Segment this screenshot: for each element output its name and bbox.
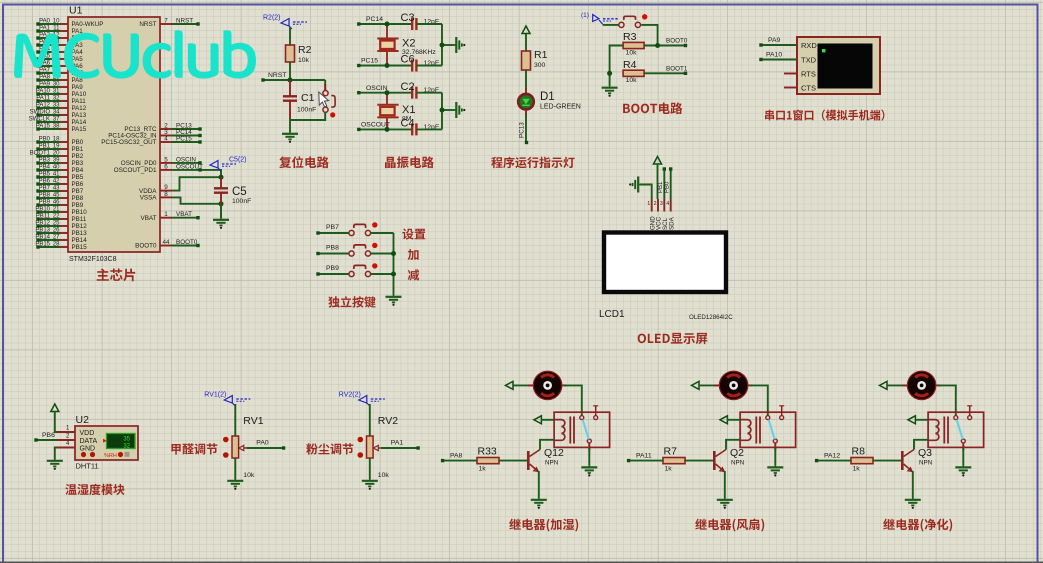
- svg-text:OSCIN_PD0: OSCIN_PD0: [121, 160, 157, 167]
- svg-text:100nF: 100nF: [297, 107, 316, 114]
- svg-text:37: 37: [53, 117, 60, 123]
- MCUclub watermark: [14, 30, 256, 78]
- relay contacts: [580, 416, 584, 420]
- wire/pin PB8 (pin 45): [60, 197, 68, 199]
- svg-text:30: 30: [53, 82, 60, 88]
- wire NRST horizontal: [263, 79, 325, 81]
- svg-text:1: 1: [647, 201, 650, 207]
- svg-text:PB1: PB1: [658, 181, 664, 193]
- resistor R8 1k: [851, 458, 873, 464]
- net flag RV2(2): [359, 396, 367, 404]
- wire wiper PA1: [381, 447, 418, 449]
- svg-text:R4: R4: [623, 59, 637, 71]
- label 主芯片: [97, 269, 136, 282]
- wire PA10: [761, 59, 797, 61]
- wire bottom to ground: [234, 458, 236, 479]
- ground DHT11: [47, 459, 63, 470]
- wire arrow-motor: [887, 384, 907, 386]
- wire/pin PA10 (pin 31): [60, 93, 68, 95]
- wire PA8: [443, 460, 477, 462]
- relay 风扇 body: [740, 412, 796, 447]
- wire/pin PB6 (pin 42): [60, 183, 68, 185]
- svg-text:OSCIN: OSCIN: [366, 85, 388, 92]
- svg-text:PA10: PA10: [72, 91, 87, 98]
- svg-text:R1: R1: [534, 49, 548, 61]
- ground under C5: [213, 218, 229, 229]
- wire common to ground: [774, 443, 776, 451]
- label 减: [408, 269, 419, 280]
- resistor R33 1k: [477, 458, 499, 464]
- relay coil: [554, 420, 565, 441]
- svg-text:11: 11: [53, 26, 60, 32]
- svg-text:VDD: VDD: [80, 430, 95, 437]
- svg-text:34: 34: [53, 110, 60, 116]
- svg-text:42: 42: [53, 179, 60, 185]
- svg-text:D1: D1: [540, 91, 555, 103]
- label BOOT电路: [623, 104, 657, 114]
- wire/pin PB9 (pin 46): [60, 204, 68, 206]
- svg-text:CTS: CTS: [801, 84, 816, 93]
- button 减: [349, 271, 354, 276]
- label 继电器 加湿: [509, 519, 549, 532]
- label 甲醛调节: [171, 443, 217, 454]
- svg-text:Q2: Q2: [730, 447, 744, 459]
- wire to common: [371, 273, 394, 275]
- resistor R3 10k: [623, 42, 644, 48]
- svg-text:PB4: PB4: [72, 167, 84, 174]
- ground BOOT: [602, 86, 618, 97]
- net flag C5(2): [210, 161, 218, 169]
- svg-text:PB12: PB12: [35, 221, 50, 227]
- relay 净化 body: [928, 412, 984, 447]
- svg-text:RTS: RTS: [801, 70, 816, 79]
- power arrow DHT11: [51, 404, 59, 412]
- LED D1 LED-GREEN: [525, 88, 527, 94]
- label 设置: [402, 229, 425, 240]
- svg-text:PA12: PA12: [36, 103, 51, 109]
- svg-text:1k: 1k: [665, 466, 673, 473]
- power arrow motor: [880, 381, 888, 389]
- wire arrow-motor: [699, 384, 719, 386]
- svg-text:PA11: PA11: [72, 98, 87, 105]
- svg-text:PC15: PC15: [176, 136, 192, 143]
- wire PA11: [629, 460, 663, 462]
- wire R1 to D1: [525, 70, 527, 90]
- svg-text:R2: R2: [298, 44, 312, 56]
- capacitor C4 12pF: [411, 123, 413, 135]
- svg-text:32.768KHz: 32.768KHz: [402, 49, 436, 56]
- svg-text:PB9: PB9: [39, 200, 51, 206]
- power arrow coil: [908, 416, 916, 424]
- wire button to BOOT0 node: [641, 25, 657, 46]
- relay contacts: [954, 416, 958, 420]
- svg-text:PA14: PA14: [72, 119, 87, 126]
- svg-text:GND: GND: [80, 446, 96, 453]
- wire/pin PA5 (pin 15): [60, 58, 68, 60]
- wire/pin PA3 (pin 13): [60, 44, 68, 46]
- svg-text:7: 7: [164, 18, 168, 25]
- wire PA12: [817, 460, 851, 462]
- wire motor to relay: [562, 384, 566, 386]
- ground OLED (rotated): [629, 177, 640, 193]
- svg-text:PA9: PA9: [72, 84, 84, 91]
- wire coil VCC: [541, 419, 554, 421]
- wire/pin PB0 (pin 18): [60, 141, 68, 143]
- svg-text:PB4: PB4: [39, 165, 51, 171]
- crystal X1 8M: [386, 93, 388, 105]
- wire/pin PA11 (pin 32): [60, 100, 68, 102]
- svg-text:PB15: PB15: [72, 244, 88, 251]
- svg-text:RV1: RV1: [243, 415, 263, 427]
- svg-text:44: 44: [162, 239, 170, 246]
- pin NRST (pin 7): [160, 23, 172, 25]
- wire/pin PB1 (pin 19): [60, 148, 68, 150]
- wire PB9: [318, 273, 349, 275]
- wire VCC: [657, 164, 659, 199]
- svg-text:BOOT1: BOOT1: [666, 65, 688, 72]
- svg-text:39: 39: [53, 158, 60, 164]
- svg-text:PA4: PA4: [72, 49, 84, 56]
- svg-text:33: 33: [53, 103, 60, 109]
- wire/pin PA7 (pin 17): [60, 72, 68, 74]
- svg-text:PB12: PB12: [72, 223, 88, 230]
- label 加: [408, 249, 419, 260]
- wire button/C1 to ground: [290, 112, 325, 120]
- svg-text:VSSA: VSSA: [140, 195, 158, 202]
- svg-text:PA11: PA11: [36, 96, 50, 102]
- wire/pin PA4 (pin 14): [60, 51, 68, 53]
- serial terminal box: [784, 73, 797, 75]
- svg-text:PB6: PB6: [42, 432, 55, 439]
- relay 加湿 body: [554, 412, 610, 447]
- svg-text:PC15-OSC32_OUT: PC15-OSC32_OUT: [101, 139, 156, 146]
- svg-text:U2: U2: [76, 414, 90, 426]
- wire OSCOUT: [359, 128, 412, 130]
- DHT11 buttons: [81, 452, 86, 457]
- svg-text:100nF: 100nF: [232, 198, 251, 205]
- resistor R7 1k: [663, 458, 685, 464]
- wire common to ground: [588, 443, 590, 451]
- svg-text:DHT11: DHT11: [76, 462, 99, 471]
- svg-text:26: 26: [53, 228, 60, 234]
- svg-text:Q12: Q12: [544, 447, 564, 459]
- svg-text:R3: R3: [623, 31, 637, 43]
- wire wiper PA0: [246, 447, 283, 449]
- svg-text:1k: 1k: [479, 466, 487, 473]
- svg-text:PA12: PA12: [72, 105, 87, 112]
- svg-text:Q3: Q3: [918, 447, 932, 459]
- svg-text:SWCLK: SWCLK: [29, 117, 50, 123]
- wire R3 right to BOOT0: [644, 45, 685, 47]
- svg-text:PB3: PB3: [72, 160, 84, 167]
- svg-text:PB5: PB5: [39, 172, 51, 178]
- svg-text:DATA: DATA: [80, 438, 98, 445]
- svg-text:21: 21: [53, 207, 60, 213]
- label 粉尘调节: [306, 443, 353, 454]
- wire/pin PA1 (pin 11): [60, 30, 68, 32]
- label OLED显示屏: [638, 334, 670, 344]
- ground relay: [581, 466, 597, 477]
- svg-text:PC15: PC15: [361, 58, 378, 65]
- wire motor to relay: [936, 384, 940, 386]
- wire OSCIN: [359, 92, 412, 94]
- power arrow coil: [720, 416, 728, 424]
- motor 净化: [907, 371, 935, 399]
- svg-text:PB7: PB7: [72, 188, 84, 195]
- svg-text:PB9: PB9: [326, 265, 339, 272]
- svg-text:19: 19: [53, 144, 60, 150]
- label 晶振电路: [385, 156, 434, 168]
- svg-text:PA8: PA8: [39, 75, 51, 81]
- svg-text:NRST: NRST: [176, 18, 193, 25]
- wire/pin SWDIO (pin 34): [60, 114, 68, 116]
- svg-text:▶: ▶: [103, 438, 107, 444]
- svg-text:PB13: PB13: [72, 230, 88, 237]
- svg-text:PB8: PB8: [39, 193, 51, 199]
- relay contacts: [766, 416, 770, 420]
- svg-text:3: 3: [660, 201, 663, 207]
- wire/pin PB7 (pin 43): [60, 190, 68, 192]
- pin VBAT (pin 1): [160, 217, 172, 219]
- svg-text:PA15: PA15: [72, 126, 87, 133]
- label 温湿度模块: [65, 484, 124, 495]
- terminal screen: [818, 44, 873, 89]
- LCD1 OLED display body: [604, 233, 726, 293]
- wire/pin SWCLK (pin 37): [60, 121, 68, 123]
- relay blade: [957, 420, 963, 440]
- label 独立按键: [328, 296, 376, 308]
- svg-text:PA11: PA11: [636, 453, 652, 460]
- svg-text:38: 38: [53, 124, 60, 130]
- relay blade: [583, 420, 589, 440]
- svg-text:PB7: PB7: [39, 186, 51, 192]
- wire PA9: [761, 44, 797, 46]
- svg-text:PA10: PA10: [766, 52, 782, 59]
- BOOT button: [603, 24, 619, 26]
- svg-text:BOOT0: BOOT0: [666, 38, 688, 45]
- wire motor to relay: [748, 384, 752, 386]
- label 继电器 风扇: [695, 519, 735, 532]
- wire/pin PB3 (pin 39): [60, 162, 68, 164]
- svg-text:PB10: PB10: [35, 207, 50, 213]
- svg-text:OLED12864I2C: OLED12864I2C: [689, 314, 733, 321]
- resistor R1 300: [522, 51, 531, 70]
- svg-text:C3: C3: [401, 12, 415, 24]
- capacitor C2 12pF: [411, 87, 413, 99]
- svg-text:VBAT: VBAT: [176, 211, 192, 218]
- svg-text:10k: 10k: [298, 57, 310, 64]
- svg-text:LED-GREEN: LED-GREEN: [540, 104, 581, 111]
- ground emitter: [905, 498, 921, 509]
- wire/pin PA0 (pin 10): [60, 23, 68, 25]
- wire/pin PB12 (pin 25): [60, 225, 68, 227]
- wire top: [369, 404, 371, 436]
- wire bottom to ground: [369, 458, 371, 479]
- label 程序运行指示灯: [491, 157, 574, 169]
- button 设置: [349, 230, 354, 235]
- svg-text:6: 6: [164, 163, 168, 170]
- svg-text:10k: 10k: [626, 77, 638, 84]
- svg-text:X1: X1: [402, 104, 415, 116]
- svg-text:PC14: PC14: [366, 16, 383, 23]
- svg-text:45: 45: [53, 193, 60, 199]
- svg-text:10k: 10k: [378, 472, 390, 479]
- wire/pin PB10 (pin 21): [60, 211, 68, 213]
- wire right vertical: [441, 24, 443, 66]
- wire base: [499, 460, 527, 462]
- wire D1 down PC13: [525, 110, 527, 117]
- ground relay: [955, 466, 971, 477]
- wire/pin BOOT1 (pin 20): [60, 155, 68, 157]
- svg-text:27: 27: [53, 235, 60, 241]
- ground: [362, 479, 378, 490]
- resistor R2 10k: [286, 45, 295, 62]
- svg-text:NPN: NPN: [919, 460, 933, 467]
- svg-text:46: 46: [53, 200, 60, 206]
- svg-text:R33: R33: [478, 446, 497, 458]
- wire/pin PA6 (pin 16): [60, 65, 68, 67]
- wire/pin PB13 (pin 26): [60, 232, 68, 234]
- net flag R2(2): [281, 19, 289, 27]
- wire PC14: [359, 23, 412, 25]
- svg-text:NPN: NPN: [545, 460, 559, 467]
- svg-text:C1: C1: [301, 92, 315, 104]
- wire base: [873, 460, 901, 462]
- svg-text:BOOT1: BOOT1: [30, 151, 51, 157]
- svg-text:RV2: RV2: [378, 415, 398, 427]
- wire right vertical: [441, 93, 443, 130]
- pin BOOT0 (pin 44): [160, 245, 172, 247]
- label 继电器 净化: [883, 519, 923, 532]
- svg-text:PA8: PA8: [450, 453, 463, 460]
- svg-text:R8: R8: [852, 446, 866, 458]
- wire PB6: [36, 439, 57, 441]
- relay coil: [740, 420, 751, 441]
- svg-text:%RH: %RH: [104, 453, 117, 459]
- pin VDDA (pin 9) wire: [160, 190, 172, 192]
- svg-text:40: 40: [53, 165, 60, 171]
- svg-text:OSCOUT_PD1: OSCOUT_PD1: [114, 167, 157, 174]
- svg-text:RV1(2): RV1(2): [204, 392, 226, 399]
- svg-text:10k: 10k: [626, 49, 638, 56]
- capacitor C6 12pF: [411, 60, 413, 72]
- DHT11 display: [107, 434, 136, 449]
- svg-text:10: 10: [53, 19, 60, 25]
- button 加: [349, 251, 354, 256]
- chip U1 STM32F103C8: [68, 17, 160, 252]
- svg-text:PB2: PB2: [72, 153, 84, 160]
- svg-text:PB0: PB0: [72, 139, 84, 146]
- svg-text:PB10: PB10: [72, 209, 88, 216]
- resistor R4 10k: [623, 70, 644, 76]
- OLED pins 1-4: [651, 199, 653, 212]
- svg-text:BOOT0: BOOT0: [135, 243, 157, 250]
- ground relay: [767, 466, 783, 477]
- svg-text:VBAT: VBAT: [141, 215, 157, 222]
- wire/pin PA9 (pin 30): [60, 86, 68, 88]
- svg-text:25: 25: [53, 221, 60, 227]
- svg-text:41: 41: [53, 172, 60, 178]
- svg-text:SWDIO: SWDIO: [30, 110, 51, 116]
- svg-text:PB11: PB11: [36, 214, 51, 220]
- wire emitter to ground: [912, 471, 914, 498]
- motor 风扇: [719, 371, 747, 399]
- transistor Q3 NPN: [901, 451, 904, 470]
- ground buttons: [386, 295, 402, 306]
- svg-text:PB8: PB8: [72, 195, 84, 202]
- svg-text:PB8: PB8: [326, 245, 339, 252]
- svg-text:BOOT0: BOOT0: [176, 239, 198, 246]
- svg-text:R7: R7: [664, 446, 678, 458]
- svg-text:PA9: PA9: [39, 82, 51, 88]
- svg-text:PB5: PB5: [72, 174, 84, 181]
- wire PB8: [318, 253, 349, 255]
- svg-text:PA8: PA8: [72, 77, 84, 84]
- wire R2 to NRST node: [289, 62, 291, 80]
- wire to common: [371, 253, 394, 255]
- svg-text:PB3: PB3: [39, 158, 51, 164]
- svg-text:32: 32: [53, 96, 60, 102]
- wire SDA PB0: [670, 169, 672, 199]
- ground (rotated): [442, 44, 455, 46]
- svg-text:28: 28: [53, 242, 60, 248]
- svg-text:PB6: PB6: [39, 179, 51, 185]
- svg-text:PA13: PA13: [72, 112, 87, 119]
- capacitor C3 12pF: [411, 18, 413, 30]
- wire to R1: [525, 34, 527, 52]
- power arrow: [522, 26, 530, 34]
- svg-text:1k: 1k: [853, 466, 861, 473]
- svg-text:8M: 8M: [402, 115, 412, 122]
- svg-text:4: 4: [164, 136, 168, 143]
- pin OSCOUT_PD1 (pin 6) + wire to C5: [160, 169, 172, 171]
- svg-text:PB1: PB1: [72, 146, 84, 153]
- svg-text:R2(2): R2(2): [263, 15, 281, 22]
- svg-text:PA0: PA0: [256, 440, 269, 447]
- wire/pin PA2 (pin 12): [60, 37, 68, 39]
- wire emitter to ground: [538, 471, 540, 498]
- wire arrow-motor: [513, 384, 533, 386]
- label 串口1窗口（模拟手机端）: [765, 110, 884, 121]
- wire SCL PB1: [663, 169, 665, 199]
- wire collector: [726, 440, 740, 450]
- wire PB7: [318, 232, 349, 234]
- wire common to ground: [962, 443, 964, 451]
- wire/pin PB11 (pin 22): [60, 218, 68, 220]
- svg-text:31: 31: [53, 89, 60, 95]
- svg-text:PA1: PA1: [391, 440, 404, 447]
- svg-text:U1: U1: [69, 5, 83, 17]
- svg-text:300: 300: [534, 62, 546, 69]
- ground reset: [282, 132, 298, 143]
- svg-text:8: 8: [164, 191, 168, 198]
- wire/pin PA15 (pin 38): [60, 128, 68, 130]
- power arrow motor: [506, 381, 514, 389]
- transistor Q2 NPN: [713, 451, 716, 470]
- pin OSCIN_PD0 (pin 5): [160, 162, 172, 164]
- svg-text:PB11: PB11: [72, 216, 87, 223]
- ground emitter: [531, 498, 547, 509]
- svg-text:PB14: PB14: [72, 237, 88, 244]
- power arrow motor: [692, 381, 700, 389]
- wire/pin PA12 (pin 33): [60, 107, 68, 109]
- svg-text:LCD1: LCD1: [599, 309, 625, 320]
- svg-text:(1): (1): [581, 12, 589, 19]
- svg-text:32: 32: [123, 443, 130, 449]
- label 复位电路: [279, 156, 329, 168]
- pin PC15-OSC32_OUT (pin 4): [160, 141, 172, 143]
- svg-text:4: 4: [666, 201, 669, 207]
